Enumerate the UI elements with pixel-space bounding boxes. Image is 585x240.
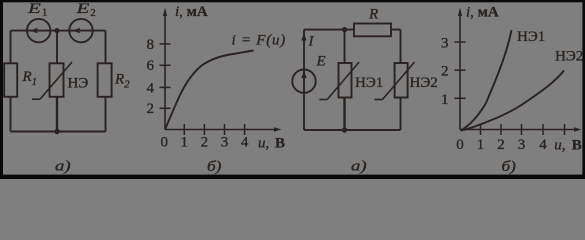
axis: graph 2 horizontal (voltage axis): [460, 127, 582, 131]
svg-text:E: E: [316, 54, 326, 70]
svg-text:1: 1: [42, 7, 48, 19]
arrow: current I: [301, 33, 306, 41]
wire: circuit 1 middle branch (through НЭ): [56, 31, 58, 132]
tick labels graph 1 x-axis: [161, 134, 249, 150]
svg-text:НЭ: НЭ: [68, 75, 89, 91]
svg-text:i, мА: i, мА: [466, 5, 499, 21]
curve НЭ2: [461, 71, 565, 131]
svg-text:u, В: u, В: [258, 136, 285, 152]
svg-text:2: 2: [147, 101, 155, 117]
svg-text:E: E: [27, 0, 41, 16]
svg-text:6: 6: [147, 58, 155, 74]
node: circuit 2 bottom junction: [342, 127, 347, 132]
svg-text:8: 8: [147, 37, 155, 53]
curve i = F(u): [165, 51, 254, 130]
svg-text:НЭ1: НЭ1: [517, 29, 545, 45]
resistor R: [354, 24, 391, 37]
source E1: [27, 19, 50, 42]
svg-text:4: 4: [147, 80, 155, 96]
svg-text:НЭ1: НЭ1: [355, 75, 383, 91]
svg-text:3: 3: [441, 36, 449, 52]
svg-text:3: 3: [518, 137, 526, 153]
svg-text:1: 1: [441, 92, 449, 108]
resistor R2: [98, 63, 112, 97]
svg-text:3: 3: [221, 134, 229, 150]
svg-text:4: 4: [241, 134, 249, 150]
tick labels graph 2 y-axis: [441, 36, 449, 108]
svg-text:I: I: [308, 34, 315, 50]
wire: circuit 2 left branch (through E): [303, 30, 305, 130]
svg-text:i = F(u): i = F(u): [232, 33, 286, 49]
nonlinear element НЭ2: [375, 62, 415, 100]
resistor R1: [4, 63, 17, 97]
svg-text:2: 2: [90, 7, 96, 19]
svg-text:0: 0: [456, 137, 464, 153]
wire: circuit 1 right branch (through R2): [105, 31, 107, 132]
source E2: [69, 19, 92, 42]
svg-text:2: 2: [201, 134, 209, 150]
svg-text:2: 2: [441, 64, 449, 80]
svg-text:1: 1: [477, 137, 485, 153]
svg-text:НЭ2: НЭ2: [410, 75, 438, 91]
nonlinear element НЭ1: [319, 62, 359, 100]
wire: circuit 2 right branch (through НЭ2): [400, 30, 402, 130]
ticks: graph 1 x-axis (1,2,3,4): [184, 124, 244, 135]
svg-text:u, В: u, В: [554, 138, 582, 154]
wire: circuit 2 bottom conductor: [304, 129, 401, 131]
svg-text:б): б): [502, 159, 516, 175]
source E: [292, 70, 315, 93]
wire: circuit 2 middle branch lower stub: [343, 97, 345, 130]
axis: graph 1 horizontal (voltage axis): [165, 127, 282, 131]
wire: circuit 1 middle branch lower stub: [56, 97, 58, 132]
wire: circuit 1 bottom conductor: [11, 131, 106, 133]
svg-text:E: E: [75, 0, 89, 16]
nonlinear element НЭ: [32, 62, 72, 99]
ticks: graph 2 y-axis (1,2,3): [455, 42, 466, 98]
svg-text:2: 2: [497, 137, 505, 153]
label E2: [75, 0, 95, 19]
svg-text:НЭ2: НЭ2: [555, 49, 583, 65]
ticks: graph 1 y-axis (2,4,6,8): [160, 44, 171, 108]
svg-text:R: R: [368, 7, 378, 23]
svg-text:а): а): [55, 157, 71, 174]
axis: graph 1 vertical (current axis): [163, 8, 167, 130]
wire: circuit 1 top conductor: [11, 30, 106, 32]
node: circuit 2 top junction: [342, 27, 347, 32]
svg-text:i, мА: i, мА: [175, 4, 208, 20]
tick labels graph 1 y-axis: [147, 37, 155, 117]
node: circuit 1 top junction: [54, 28, 59, 33]
tick labels graph 2 x-axis: [456, 137, 547, 153]
svg-text:1: 1: [181, 134, 189, 150]
svg-text:4: 4: [539, 137, 547, 153]
axis: graph 2 vertical (current axis): [458, 8, 462, 130]
svg-text:а): а): [351, 157, 367, 174]
wire: circuit 1 left branch (through R1): [10, 31, 12, 132]
wire: circuit 2 middle branch (through НЭ1): [344, 30, 346, 130]
curve НЭ1: [461, 30, 512, 131]
node: circuit 1 bottom junction: [54, 129, 59, 134]
ticks: graph 2 x-axis (1,2,3,4,5): [481, 124, 565, 135]
svg-text:б): б): [207, 159, 221, 175]
svg-text:0: 0: [161, 134, 169, 150]
label E1: [27, 0, 48, 19]
wire: circuit 2 top conductor: [304, 29, 401, 31]
